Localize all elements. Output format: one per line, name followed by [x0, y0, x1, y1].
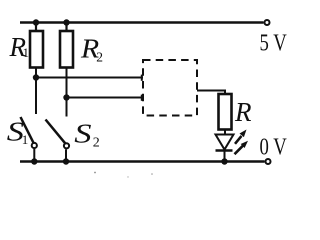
node junction top R2: [63, 19, 69, 25]
node junction S1 bottom: [31, 158, 37, 164]
svg-text:1: 1: [22, 132, 29, 147]
label S1: [7, 116, 29, 147]
wire stub R1 top: [35, 23, 37, 32]
wire bottom return rail: [20, 160, 265, 163]
node junction R1 bottom: [33, 74, 39, 80]
terminal 0V: [266, 159, 271, 164]
wire R1 bottom down to switch S1: [35, 68, 37, 115]
wire input B terminal tick: [141, 95, 143, 101]
terminal 5V: [265, 20, 270, 25]
svg-text:2: 2: [93, 136, 100, 151]
label R: [234, 97, 252, 127]
switch S1 contact circle: [32, 143, 37, 148]
wire input B to gate box: [67, 97, 144, 99]
svg-text:1: 1: [23, 45, 30, 60]
node junction S2 bottom: [63, 158, 69, 164]
scan speckle 3: [127, 176, 128, 177]
svg-text:S: S: [74, 118, 91, 148]
svg-text:0 V: 0 V: [260, 133, 288, 160]
resistor R2: [60, 31, 73, 68]
label 5 V: [260, 29, 288, 56]
resistor R: [219, 94, 232, 130]
svg-text:R: R: [234, 97, 252, 127]
label R1: [9, 32, 30, 62]
logic gate U1 dashed box: [143, 60, 197, 116]
svg-text:2: 2: [96, 50, 103, 65]
node junction R2 branch: [63, 94, 69, 100]
label R2: [80, 34, 103, 64]
node junction top R1: [33, 19, 39, 25]
switch S2 contact circle: [64, 143, 69, 148]
wire S1 contact to rail: [33, 149, 35, 162]
wire R bottom to LED: [224, 130, 226, 135]
wire gate output: [197, 91, 225, 95]
label 0 V: [260, 133, 288, 160]
label S2: [74, 118, 100, 151]
wire input A to gate box: [36, 77, 143, 79]
svg-text:5 V: 5 V: [260, 29, 288, 56]
LED diode triangle: [216, 135, 234, 150]
wire S2 contact to rail: [65, 149, 67, 161]
LED cathode bar: [216, 149, 233, 151]
switch S2 lever: [46, 120, 66, 144]
wire LED cathode down: [224, 151, 226, 162]
resistor R1: [30, 31, 43, 68]
wire R2 bottom down to switch S2: [66, 68, 68, 117]
LED light arrow 2: [235, 141, 249, 154]
LED light arrow 1: [235, 130, 247, 144]
scan speckle 1: [94, 172, 96, 174]
switch S1 lever: [21, 117, 34, 143]
wire stub R2 top: [65, 23, 67, 32]
wire top supply rail: [20, 21, 264, 24]
scan speckle 2: [151, 173, 153, 175]
node junction LED bottom: [221, 158, 227, 164]
wire input A terminal tick: [141, 75, 143, 81]
